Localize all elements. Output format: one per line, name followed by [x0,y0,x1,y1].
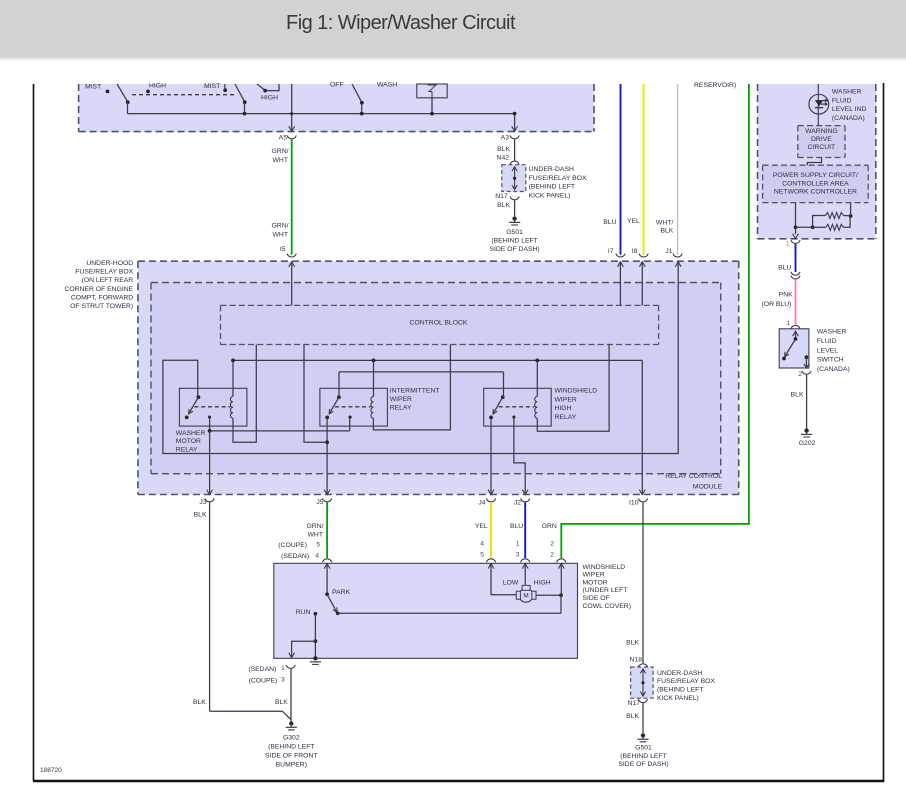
svg-text:BLK: BLK [497,146,510,153]
svg-text:BUMPER): BUMPER) [276,762,307,769]
svg-text:MODULE: MODULE [693,483,723,490]
svg-text:FUSE/RELAY BOX: FUSE/RELAY BOX [75,269,133,276]
svg-text:SIDE OF: SIDE OF [583,595,610,602]
svg-text:WHT: WHT [308,531,323,538]
svg-text:I10: I10 [629,500,639,507]
svg-text:HIGH: HIGH [534,579,551,586]
svg-text:WASHER: WASHER [176,430,206,437]
svg-text:INTERMITTENT: INTERMITTENT [390,387,440,394]
svg-text:YEL: YEL [627,218,640,225]
svg-text:N17: N17 [628,700,641,707]
svg-text:BLU: BLU [603,219,616,226]
svg-text:SIDE OF DASH): SIDE OF DASH) [489,246,539,253]
svg-text:RELAY: RELAY [555,414,577,421]
svg-text:WIPER: WIPER [555,396,577,403]
svg-text:J4: J4 [478,499,485,506]
svg-text:2: 2 [550,552,554,559]
svg-text:J5: J5 [316,499,323,506]
svg-text:COWL COVER): COWL COVER) [583,603,631,610]
svg-text:(CANADA): (CANADA) [832,115,865,122]
svg-text:(CANADA): (CANADA) [817,366,850,373]
svg-text:N17: N17 [495,193,508,200]
svg-text:GRN/: GRN/ [272,223,289,230]
svg-text:G302: G302 [283,734,300,741]
svg-text:POWER SUPPLY CIRCUIT/: POWER SUPPLY CIRCUIT/ [773,172,858,179]
svg-text:RESERVOIR): RESERVOIR) [694,82,736,89]
svg-text:I5: I5 [280,246,286,253]
svg-text:WASHER: WASHER [832,89,862,96]
svg-text:(COUPE): (COUPE) [249,677,278,684]
svg-text:WINDSHIELD: WINDSHIELD [583,564,626,571]
svg-text:(COUPE): (COUPE) [278,542,307,549]
svg-text:NETWORK CONTROLLER: NETWORK CONTROLLER [774,189,857,196]
svg-text:2: 2 [798,371,802,378]
svg-text:4: 4 [315,553,319,560]
svg-text:LEVEL: LEVEL [817,347,838,354]
svg-text:BLK: BLK [791,392,804,399]
svg-text:WHT: WHT [273,157,288,164]
svg-text:CORNER OF ENGINE: CORNER OF ENGINE [64,286,133,293]
svg-text:GRN/: GRN/ [307,523,324,530]
svg-text:LOW: LOW [503,579,519,586]
svg-text:1: 1 [516,540,520,547]
svg-text:N42: N42 [497,154,510,161]
svg-text:(BEHIND LEFT: (BEHIND LEFT [529,184,575,191]
svg-text:BLK: BLK [193,699,206,706]
svg-text:HIGH: HIGH [149,83,166,90]
svg-text:UNDER-HOOD: UNDER-HOOD [86,260,133,267]
svg-text:WHT: WHT [273,232,288,239]
svg-text:WINDSHIELD: WINDSHIELD [555,388,598,395]
svg-text:RELAY: RELAY [390,405,412,412]
svg-text:1: 1 [786,241,790,248]
svg-text:RUN: RUN [296,609,311,616]
svg-text:CIRCUIT: CIRCUIT [808,144,836,151]
svg-text:3: 3 [281,677,285,684]
svg-text:SIDE OF DASH): SIDE OF DASH) [618,761,668,768]
svg-text:(BEHIND LEFT: (BEHIND LEFT [268,743,314,750]
svg-text:OFF: OFF [330,82,344,89]
svg-text:J2: J2 [514,499,521,506]
svg-text:FLUID: FLUID [832,97,852,104]
svg-text:FLUID: FLUID [817,338,837,345]
svg-text:5: 5 [316,542,320,549]
svg-text:1: 1 [281,665,285,672]
svg-text:HIGH: HIGH [261,95,278,102]
svg-text:WIPER: WIPER [583,572,605,579]
svg-text:MOTOR: MOTOR [176,438,201,445]
svg-text:(SEDAN): (SEDAN) [281,553,309,560]
svg-text:MIST: MIST [204,83,220,90]
svg-text:FUSE/RELAY BOX: FUSE/RELAY BOX [657,678,715,685]
svg-text:WARNING: WARNING [805,128,838,135]
svg-text:3: 3 [516,552,520,559]
svg-text:A3: A3 [501,135,510,142]
svg-text:PARK: PARK [332,589,350,596]
svg-text:N18: N18 [630,657,643,664]
svg-text:(BEHIND LEFT: (BEHIND LEFT [491,238,537,245]
svg-text:(UNDER LEFT: (UNDER LEFT [583,587,628,594]
svg-text:CONTROLLER AREA: CONTROLLER AREA [782,180,849,187]
svg-text:BLK: BLK [660,228,673,235]
svg-text:BLU: BLU [778,265,791,272]
svg-text:(OR BLU): (OR BLU) [762,301,792,308]
svg-text:RELAY: RELAY [176,447,198,454]
svg-text:HIGH: HIGH [555,405,572,412]
svg-text:COMPT, FORWARD: COMPT, FORWARD [71,294,133,301]
svg-text:SWITCH: SWITCH [817,357,844,364]
svg-text:KICK PANEL): KICK PANEL) [657,695,699,702]
svg-text:G501: G501 [506,229,523,236]
svg-text:(ON LEFT REAR: (ON LEFT REAR [82,277,134,284]
svg-text:WASH: WASH [377,82,397,89]
svg-text:BLK: BLK [275,699,288,706]
svg-text:(SEDAN): (SEDAN) [248,666,276,673]
svg-text:SIDE OF FRONT: SIDE OF FRONT [265,753,318,760]
svg-text:MIST: MIST [85,84,101,91]
svg-text:BLK: BLK [626,640,639,647]
svg-text:MOTOR: MOTOR [583,579,608,586]
svg-text:FUSE/RELAY BOX: FUSE/RELAY BOX [529,175,587,182]
svg-text:(BEHIND LEFT: (BEHIND LEFT [657,687,703,694]
svg-text:J1: J1 [665,248,672,255]
svg-text:KICK PANEL): KICK PANEL) [529,192,571,199]
svg-text:RELAY CONTROL: RELAY CONTROL [665,473,722,480]
svg-text:GRN: GRN [542,523,557,530]
svg-text:BLK: BLK [626,713,639,720]
svg-text:4: 4 [480,540,484,547]
svg-text:BLK: BLK [194,511,207,518]
svg-text:WIPER: WIPER [390,396,412,403]
svg-text:UNDER-DASH: UNDER-DASH [657,670,702,677]
svg-text:OF STRUT TOWER): OF STRUT TOWER) [70,303,133,310]
svg-text:I8: I8 [632,248,638,255]
svg-text:LEVEL IND: LEVEL IND [832,106,867,113]
svg-text:(BEHIND LEFT: (BEHIND LEFT [620,753,666,760]
svg-text:CONTROL BLOCK: CONTROL BLOCK [410,320,468,327]
svg-text:BLU: BLU [510,523,523,530]
svg-text:DRIVE: DRIVE [811,136,832,143]
svg-text:G202: G202 [799,440,816,447]
svg-text:2: 2 [550,540,554,547]
svg-text:UNDER-DASH: UNDER-DASH [529,166,574,173]
svg-text:A5: A5 [279,135,288,142]
svg-text:I7: I7 [608,248,614,255]
svg-text:5: 5 [480,552,484,559]
svg-text:WASHER: WASHER [817,329,847,336]
svg-text:GRN/: GRN/ [272,148,289,155]
svg-text:1: 1 [786,320,790,327]
svg-text:188720: 188720 [40,767,62,774]
svg-text:BLK: BLK [497,202,510,209]
svg-text:WHT/: WHT/ [656,219,673,226]
svg-text:M: M [523,592,529,599]
svg-text:PNK: PNK [779,292,793,299]
svg-text:YEL: YEL [475,523,488,530]
svg-text:G501: G501 [635,744,652,751]
